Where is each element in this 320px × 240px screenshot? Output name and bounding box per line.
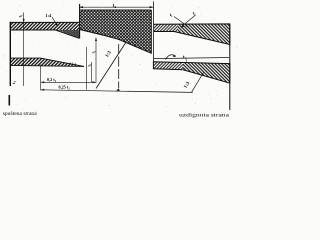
svg-text:0,1 t: 0,1 t <box>70 62 77 66</box>
small label x2 with leader <box>183 54 187 62</box>
small arc leader over bore line <box>166 55 177 60</box>
bore reference line (left bore surface projected) <box>154 58 229 59</box>
extension line x=91.3 with rotated label <box>90 62 92 82</box>
left thickness dimension line t1 (vertical) <box>11 13 25 87</box>
left pipe end face <box>9 22 11 86</box>
left pipe inside weld-buildup wedge <box>56 30 80 38</box>
taper leader 1:4 (top-left) <box>46 13 59 26</box>
right pipe lower wall (hatched, outside taper) <box>153 62 229 83</box>
dimension line 0,2 t1 <box>41 77 96 83</box>
taper slope line 1:3 (center, rotated label) <box>96 43 126 89</box>
weld centerline (dash-dot) <box>118 44 120 88</box>
svg-text:uzdignuta strana: uzdignuta strana <box>179 112 230 118</box>
weld buildup block (cross-hatched) <box>56 4 152 53</box>
scan noise specks <box>3 0 238 121</box>
vertical dimension at x=96 with rotated label <box>91 38 98 84</box>
right pipe upper wall (hatched, inside taper) <box>154 24 230 45</box>
left pipe end face <box>79 4 81 39</box>
right pipe end/joint face <box>153 2 155 63</box>
right pipe far end face + extension <box>229 24 231 110</box>
svg-text:1:4: 1:4 <box>46 13 53 18</box>
left margin artifact bar <box>8 95 10 106</box>
svg-text:spuštena strana: spuštena strana <box>3 111 38 117</box>
taper slope line 1:3 (bottom-right, rotated label) <box>183 73 203 93</box>
crossed leaders with labels t1 t2 (top-right) <box>170 11 196 28</box>
extension line x=86.7 <box>86 47 88 90</box>
dimension line 0,25 t2 (long bottom line) <box>41 85 193 93</box>
left pipe lower wall (hatched band with taper tip) <box>10 58 84 66</box>
left pipe upper wall (hatched band) <box>10 22 79 30</box>
taper start extension line (bottom-left) <box>40 65 42 91</box>
svg-text:t2: t2 <box>113 4 117 9</box>
top dimension line over weld block <box>79 4 154 9</box>
